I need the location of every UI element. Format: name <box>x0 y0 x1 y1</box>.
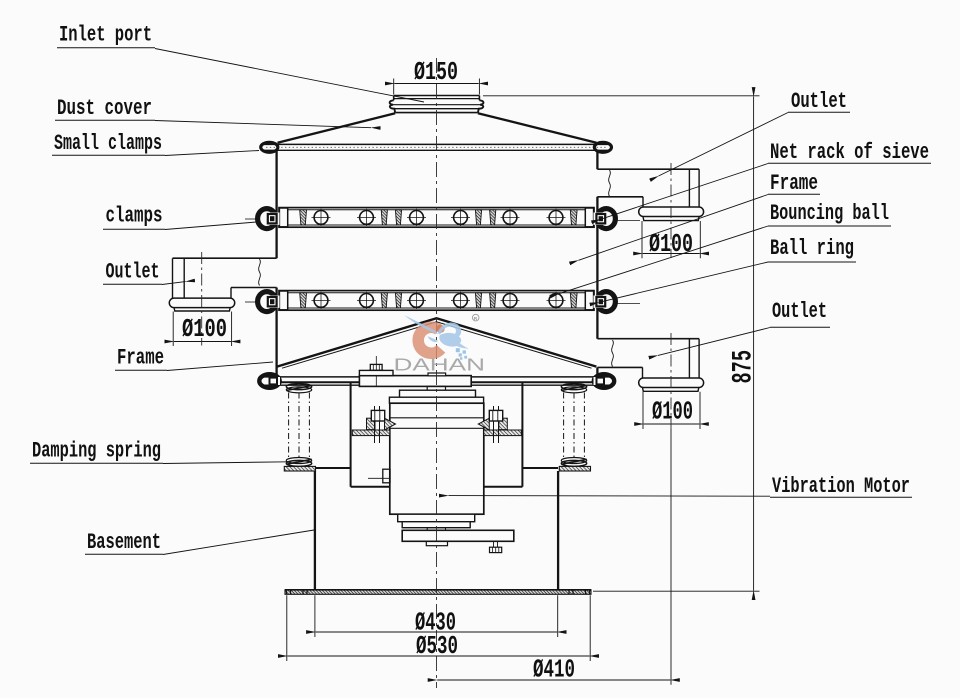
bottom ring clamp right <box>594 374 615 388</box>
dimension Ø430 <box>315 595 558 637</box>
label net rack of sieve <box>768 140 931 165</box>
basement support plates <box>315 382 558 487</box>
svg-text:Bouncing ball: Bouncing ball <box>770 201 889 226</box>
svg-text:Outlet: Outlet <box>791 89 847 114</box>
centerline main <box>436 58 438 688</box>
centerline left outlet <box>201 252 203 346</box>
small clamp right (dust cover) <box>594 142 611 152</box>
label frame left <box>115 346 167 371</box>
dimension Ø100 bottom right <box>643 392 700 429</box>
clamp right <box>594 209 641 229</box>
extension line for dim 410 <box>670 429 672 685</box>
leader dust cover <box>155 121 371 128</box>
basement cylinder walls <box>315 471 558 590</box>
small clamp left (dust cover) <box>261 142 278 152</box>
damping spring right <box>559 384 590 471</box>
label bouncing ball <box>768 201 891 226</box>
svg-text:Ø100: Ø100 <box>182 314 227 344</box>
svg-text:Small clamps: Small clamps <box>54 131 162 156</box>
label damping spring <box>30 439 163 464</box>
centerline right bottom outlet <box>670 333 672 429</box>
outlet pipe left <box>169 258 276 311</box>
label small clamps <box>52 131 165 156</box>
svg-text:Frame: Frame <box>117 346 164 371</box>
svg-text:Ø100: Ø100 <box>649 229 693 259</box>
leader ball ring <box>599 262 768 302</box>
motor bottom plate <box>402 530 514 541</box>
basement bottom flange <box>285 590 591 595</box>
svg-text:Ø100: Ø100 <box>652 397 693 427</box>
dimension Ø530 <box>287 595 590 661</box>
label outlet top right <box>788 89 850 114</box>
label dust cover <box>55 96 155 121</box>
svg-text:Ø410: Ø410 <box>533 655 575 685</box>
label outlet bottom right <box>770 299 830 327</box>
outlet pipe top right <box>597 169 703 220</box>
wedge supports <box>300 210 577 225</box>
damping spring left <box>284 384 315 471</box>
dimension 875 <box>483 96 760 591</box>
svg-text:Damping spring: Damping spring <box>32 439 161 464</box>
leader outlet bottom right <box>658 328 770 356</box>
leader vibration motor <box>449 495 771 498</box>
leader net rack of sieve <box>601 164 769 220</box>
eccentric wedge blocks left <box>367 418 396 430</box>
dimension Ø100 left <box>173 312 231 347</box>
leader outlet top right <box>659 113 789 177</box>
svg-text:clamps: clamps <box>106 204 163 229</box>
label outlet left <box>103 260 162 285</box>
cone funnel <box>277 318 596 368</box>
label ball ring <box>768 236 856 262</box>
leader bouncing ball <box>559 226 768 294</box>
outlet pipe bottom right <box>597 339 703 392</box>
dust cover <box>278 113 597 143</box>
dimension Ø150 <box>394 79 480 95</box>
motor shaft neck <box>427 386 445 390</box>
vibration motor top mounting plate <box>359 370 471 386</box>
frame body walls <box>277 150 598 377</box>
label basement <box>85 530 163 555</box>
motor bottom bolt <box>490 541 502 552</box>
leader frame right <box>579 195 769 261</box>
leader outlet left <box>162 282 186 285</box>
svg-text:Outlet: Outlet <box>106 260 160 285</box>
svg-text:Ball ring: Ball ring <box>770 236 854 261</box>
label frame right <box>768 171 820 196</box>
leader small clamps <box>165 151 259 156</box>
motor clamp bolt right <box>489 406 502 443</box>
label clamps <box>103 204 165 230</box>
label vibration motor <box>770 474 912 499</box>
bottom ring clamp left <box>259 374 280 388</box>
vibration motor top plate bolt <box>369 356 384 370</box>
dimension Ø410 <box>437 679 670 681</box>
dust cover rim ring <box>262 144 611 150</box>
sieve deck 2 <box>245 291 640 312</box>
svg-text:Dust cover: Dust cover <box>57 96 152 121</box>
svg-text:Basement: Basement <box>87 530 161 555</box>
centerline right top outlet <box>670 163 672 258</box>
clamp left <box>245 209 280 229</box>
svg-text:R: R <box>474 316 478 322</box>
motor junction tab <box>368 469 390 483</box>
motor flange hatched bars <box>352 430 521 436</box>
leader damping spring <box>163 462 288 464</box>
svg-text:Vibration Motor: Vibration Motor <box>772 474 910 499</box>
leader clamps <box>165 222 257 230</box>
svg-text:Outlet: Outlet <box>772 299 827 324</box>
bottom ring <box>262 377 611 385</box>
leader frame left <box>167 362 273 371</box>
dimension Ø100 top right <box>642 221 700 258</box>
sieve deck 1 (net rack, bouncing balls, ball ring) <box>245 208 640 229</box>
inlet port neck <box>390 96 484 113</box>
svg-text:Ø530: Ø530 <box>416 631 458 661</box>
svg-text:Inlet port: Inlet port <box>59 23 152 48</box>
label inlet port <box>57 23 155 48</box>
leader basement <box>163 530 314 555</box>
motor body <box>390 403 484 514</box>
svg-text:Ø150: Ø150 <box>414 57 458 87</box>
svg-text:875: 875 <box>729 350 760 384</box>
svg-text:DAHAN: DAHAN <box>394 355 486 375</box>
leader inlet port <box>155 49 424 103</box>
eccentric wedge blocks right <box>478 418 507 430</box>
motor clamp bolt left <box>371 406 384 443</box>
motor step discs <box>400 390 476 397</box>
motor bottom steps <box>398 514 475 522</box>
watermark DAHAN logo <box>394 314 486 374</box>
svg-text:Net rack of sieve: Net rack of sieve <box>770 140 929 165</box>
bouncing balls <box>314 211 563 225</box>
svg-text:Frame: Frame <box>770 171 818 196</box>
